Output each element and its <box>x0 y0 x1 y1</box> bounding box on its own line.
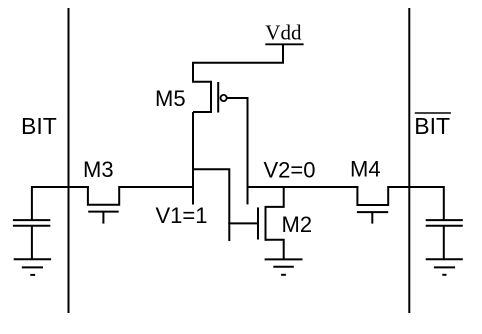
wire M2 gate lead <box>228 222 258 224</box>
label M5 <box>155 86 186 111</box>
wire node BIT: C1 top to M3 source <box>32 187 89 220</box>
transistor M4 (access NMOS, right) <box>357 186 388 224</box>
wire Vdd to M5 source <box>192 44 283 62</box>
label M4 <box>350 157 381 182</box>
label BIT <box>21 113 57 139</box>
svg-text:V2=0: V2=0 <box>264 157 316 182</box>
label BIT-bar (with overbar) <box>414 113 451 139</box>
svg-text:BIT: BIT <box>414 113 450 139</box>
wire M4 drain to BIT-bar and C2 <box>388 187 444 220</box>
ground (below C2) <box>426 259 463 275</box>
wire M3 drain to node V1 <box>119 186 194 188</box>
transistor M3 (access NMOS, left) <box>88 186 119 224</box>
capacitor C2 (right bit line) <box>426 220 463 259</box>
ground (below C1) <box>14 259 51 275</box>
ground (M2 source) <box>265 259 303 274</box>
svg-text:V1=1: V1=1 <box>156 203 208 228</box>
svg-text:M4: M4 <box>350 157 381 182</box>
bit line right (BIT-bar) <box>408 8 410 313</box>
label M2 <box>282 212 313 237</box>
svg-text:M3: M3 <box>83 157 114 182</box>
label M3 <box>83 157 114 182</box>
svg-text:M5: M5 <box>155 86 186 111</box>
svg-text:BIT: BIT <box>21 113 57 139</box>
label V1=1 <box>156 203 208 228</box>
transistor M5 (PMOS load) <box>193 63 249 113</box>
wire node V2 to M4 source <box>247 186 359 188</box>
wire V1 to M2 gate feed <box>193 169 229 241</box>
wire M5 gate down to node V2 <box>247 97 249 204</box>
label Vdd <box>265 21 302 45</box>
transistor M2 (driver NMOS) <box>258 186 284 259</box>
capacitor C1 (left bit line) <box>13 220 50 259</box>
bit line left (BIT) <box>68 8 70 313</box>
svg-text:M2: M2 <box>282 212 313 237</box>
label V2=0 <box>264 157 316 182</box>
node V1 vertical (M5 drain down past wire) <box>192 112 194 205</box>
svg-text:Vdd: Vdd <box>265 21 302 45</box>
Vdd rail symbol (underline) <box>265 43 303 45</box>
